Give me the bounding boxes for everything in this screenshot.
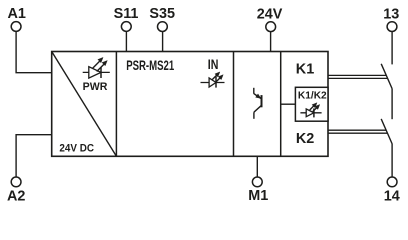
svg-text:K1/K2: K1/K2 xyxy=(298,91,327,102)
divider power section xyxy=(115,52,117,157)
LED PWR xyxy=(83,57,110,78)
opto transistor xyxy=(254,88,262,119)
svg-text:S11: S11 xyxy=(114,6,139,22)
svg-text:A2: A2 xyxy=(7,188,25,204)
svg-text:A1: A1 xyxy=(7,6,25,22)
contact 13-14 upper blade xyxy=(381,64,392,89)
terminal M1 xyxy=(248,177,268,204)
wire A2 to module xyxy=(16,135,52,177)
contact 13-14 lower blade xyxy=(381,119,392,144)
svg-text:IN: IN xyxy=(208,57,219,72)
terminal 24V xyxy=(257,6,283,31)
wire S35 to module xyxy=(162,32,164,52)
divider logic section xyxy=(233,52,235,157)
mechanical link K2 to contact (double line) xyxy=(328,130,388,133)
svg-text:24V DC: 24V DC xyxy=(59,143,94,155)
svg-text:13: 13 xyxy=(383,6,399,22)
divider output section xyxy=(280,52,282,157)
wire 24V to module xyxy=(270,32,272,52)
wire contact to 14 xyxy=(391,144,393,177)
svg-text:24V: 24V xyxy=(257,6,283,22)
wire between contacts xyxy=(391,89,393,119)
svg-text:PSR-MS21: PSR-MS21 xyxy=(126,57,174,73)
power supply diagonal xyxy=(52,52,117,157)
indicator box K1/K2 xyxy=(295,87,328,121)
wire S11 to module xyxy=(125,31,127,51)
svg-text:K2: K2 xyxy=(296,131,314,147)
LED IN xyxy=(201,72,225,88)
terminal S35 xyxy=(149,6,175,31)
wire 13 to contact xyxy=(391,32,393,65)
svg-text:S35: S35 xyxy=(149,6,175,22)
terminal 14 xyxy=(384,177,400,205)
mechanical link K1 to contact (double line) xyxy=(328,75,388,78)
module outline PSR-MS21 xyxy=(52,52,328,157)
terminal 13 xyxy=(383,6,399,31)
svg-text:14: 14 xyxy=(384,189,400,205)
terminal S11 xyxy=(114,6,139,31)
svg-text:K1: K1 xyxy=(296,61,314,77)
LED K1/K2 xyxy=(300,103,321,118)
terminal A2 xyxy=(7,177,25,204)
wire to K1/K2 indicator xyxy=(281,103,296,105)
svg-text:PWR: PWR xyxy=(83,81,108,93)
terminal A1 xyxy=(7,6,25,31)
wire M1 to module xyxy=(256,156,258,177)
svg-text:M1: M1 xyxy=(248,188,268,204)
wire A1 to module xyxy=(16,31,52,72)
